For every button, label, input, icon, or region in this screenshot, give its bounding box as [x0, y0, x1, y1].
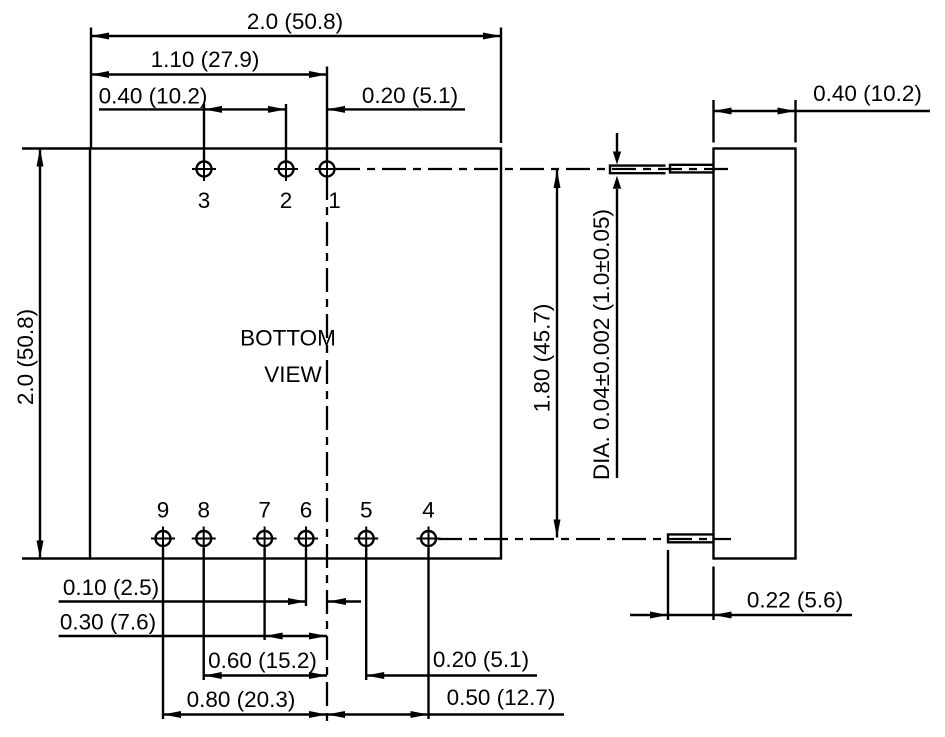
svg-text:0.50 (12.7): 0.50 (12.7)	[447, 685, 556, 710]
svg-text:7: 7	[258, 498, 271, 523]
svg-text:0.80 (20.3): 0.80 (20.3)	[187, 687, 296, 712]
svg-text:0.30 (7.6): 0.30 (7.6)	[60, 610, 156, 635]
svg-text:DIA. 0.04±0.002 (1.0±0.05): DIA. 0.04±0.002 (1.0±0.05)	[589, 209, 614, 480]
svg-text:5: 5	[360, 498, 373, 523]
svg-text:2: 2	[280, 188, 293, 213]
svg-text:9: 9	[157, 498, 170, 523]
svg-text:0.20 (5.1): 0.20 (5.1)	[362, 83, 458, 108]
svg-text:2.0 (50.8): 2.0 (50.8)	[247, 9, 343, 34]
svg-text:0.60 (15.2): 0.60 (15.2)	[208, 648, 317, 673]
svg-text:0.40 (10.2): 0.40 (10.2)	[99, 84, 208, 109]
svg-text:2.0 (50.8): 2.0 (50.8)	[13, 309, 38, 405]
svg-text:8: 8	[197, 498, 210, 523]
svg-text:VIEW: VIEW	[264, 362, 322, 387]
svg-text:0.20 (5.1): 0.20 (5.1)	[433, 647, 529, 672]
svg-text:0.22 (5.6): 0.22 (5.6)	[747, 588, 843, 613]
svg-text:BOTTOM: BOTTOM	[240, 326, 336, 351]
svg-text:0.40 (10.2): 0.40 (10.2)	[813, 81, 922, 106]
svg-text:1: 1	[328, 188, 341, 213]
svg-text:4: 4	[422, 498, 435, 523]
svg-text:3: 3	[198, 188, 211, 213]
svg-text:1.80 (45.7): 1.80 (45.7)	[530, 304, 555, 413]
svg-text:1.10 (27.9): 1.10 (27.9)	[151, 47, 260, 72]
svg-text:0.10 (2.5): 0.10 (2.5)	[63, 575, 159, 600]
svg-text:6: 6	[300, 498, 313, 523]
